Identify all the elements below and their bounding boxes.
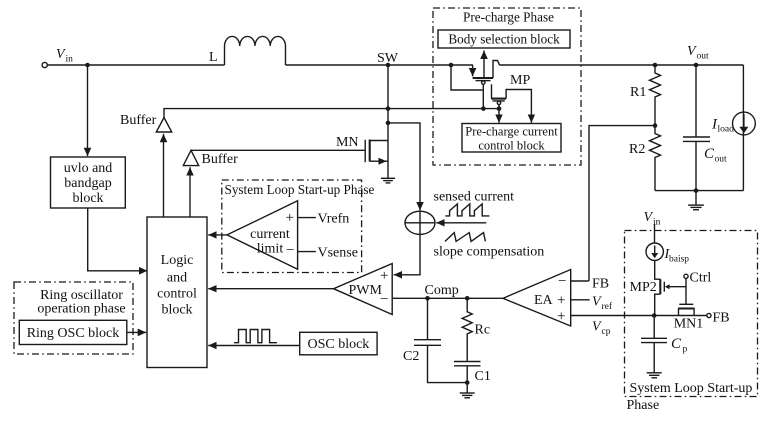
svg-text:FB: FB [592,277,609,292]
svg-text:current: current [250,227,290,242]
wire Vin to inductor [47,64,224,66]
svg-text:C: C [671,336,682,352]
svg-text:R1: R1 [630,85,646,100]
terminal FB (right) [707,311,730,326]
node SW [377,51,399,67]
wire Vin to Ibaisp [654,224,656,243]
node SW sense tap [386,121,391,126]
pre-charge current control block [462,124,561,153]
ground (compensation) [460,383,475,398]
svg-text:cp: cp [602,327,611,337]
svg-text:FB: FB [713,311,730,326]
system loop start-up phase box (right) [625,231,758,414]
input terminal [42,62,47,67]
svg-text:SW: SW [377,51,399,66]
node Comp-C2 [425,296,430,301]
svg-text:+: + [380,268,388,284]
buffer U-buf1 [120,113,172,132]
svg-text:block: block [72,191,103,206]
svg-text:out: out [697,52,710,62]
ring oscillator operation phase box [14,282,133,354]
svg-text:bandgap: bandgap [64,176,111,191]
svg-text:Phase: Phase [627,398,660,413]
wire Vrefn input [298,212,350,227]
inductor L [209,36,286,65]
svg-text:MP: MP [510,73,530,88]
capacitor C1 [454,362,491,385]
svg-text:slope compensation: slope compensation [434,245,545,260]
transistor MP [491,73,531,116]
wire gate drive junction dots [481,106,501,111]
svg-text:C2: C2 [403,349,419,364]
wire sensed current into summer [436,222,486,224]
wire EA Vcp input / startup node [571,316,707,338]
svg-text:load: load [718,125,735,135]
comparator current limit [227,201,298,269]
svg-text:out: out [715,155,728,165]
wire ring osc to logic [127,331,146,333]
svg-text:System Loop Start-up Phase: System Loop Start-up Phase [225,182,375,197]
wire output bottom [655,190,743,192]
current source Ibaisp [646,243,689,265]
svg-text:Vrefn: Vrefn [318,212,350,227]
svg-text:+: + [286,210,294,226]
svg-text:C: C [704,146,715,162]
svg-text:+: + [557,293,565,309]
capacitor Cout [683,65,727,191]
wire Vin down to uvlo [87,65,89,156]
wire FB from divider [589,126,655,281]
svg-text:control: control [157,287,197,302]
svg-text:PWM: PWM [349,283,383,298]
buffer U-buf2 [183,150,238,167]
svg-text:block: block [161,303,192,318]
slope compensation label [434,245,545,260]
svg-text:−: − [380,292,388,308]
wire SW tap down to gate line [451,65,483,90]
transistor body-select PMOS [473,61,500,109]
wire OSC to logic [208,345,300,347]
wire logic to buffer1 [163,134,165,217]
svg-text:L: L [209,50,218,65]
svg-text:V: V [644,210,654,225]
svg-text:Comp: Comp [425,283,459,298]
svg-text:Logic: Logic [161,253,194,268]
node Vout-R1 [653,63,658,68]
wire buffer2 to MN gate [192,149,366,151]
svg-text:Buffer: Buffer [120,113,157,128]
wire arrow MP drain to control block [530,115,532,123]
svg-text:control block: control block [478,139,545,153]
sensed current label [434,190,515,205]
svg-text:Body selection block: Body selection block [448,32,560,47]
svg-text:C1: C1 [475,369,491,384]
wire EA FB input [571,277,609,292]
node FB divider [653,123,658,128]
Vin label (top-left) [56,47,73,65]
svg-text:Pre-charge Phase: Pre-charge Phase [463,10,554,25]
body selection block [438,30,570,48]
svg-text:ref: ref [602,301,613,312]
svg-text:Ctrl: Ctrl [690,271,712,286]
svg-text:baisp: baisp [669,255,689,265]
wire SW vertical [387,65,389,178]
ground (output) [688,191,704,210]
svg-text:−: − [558,274,566,290]
svg-text:Rc: Rc [475,323,491,338]
wire uvlo to logic block [88,208,148,271]
wire Vsense input [298,246,358,261]
node startup [652,313,657,318]
capacitor Cp [641,316,688,373]
node Vout-Cout [694,63,699,68]
svg-text:Ring OSC block: Ring OSC block [27,326,120,341]
capacitor C2 [403,298,467,382]
logic and control block [147,217,207,368]
svg-text:Pre-charge current: Pre-charge current [465,125,558,139]
svg-text:and: and [167,271,187,286]
uvlo and bandgap block [51,157,126,208]
wire arrow into body MOS source [472,65,474,76]
OSC block [300,332,377,355]
node SW-side tap [449,63,454,68]
pre-charge phase box [433,8,581,165]
svg-text:in: in [66,55,74,65]
wire EA Vref input [571,295,613,313]
sensed current waveform [445,204,489,216]
wire current limit output [208,234,227,236]
svg-text:MN1: MN1 [674,317,704,332]
comparator PWM [334,264,393,315]
Vin label (right) [644,210,661,228]
ring OSC block [19,320,127,344]
wire arrow gate to control block [498,109,500,123]
slope compensation waveform [445,233,485,242]
wire Comp node [392,283,503,298]
svg-text:−: − [286,243,294,259]
wire buffer1 output (gate drive) [164,109,499,118]
svg-text:V: V [592,320,602,335]
svg-text:sensed current: sensed current [434,190,515,205]
summing node (adder) [405,211,435,234]
wire logic to buffer2 [189,167,191,217]
svg-text:R2: R2 [629,142,645,157]
transistor MN [336,135,388,165]
svg-text:operation phase: operation phase [37,302,125,317]
resistor R1 [630,65,661,126]
node Comp-Rc [465,296,470,301]
clock waveform [234,330,277,343]
svg-text:V: V [592,295,602,310]
svg-text:p: p [683,345,688,355]
resistor Rc [462,298,490,361]
node gate drive / SW crossing [386,106,391,111]
current source Iload [711,65,755,191]
svg-text:V: V [56,47,66,62]
svg-text:Vsense: Vsense [318,246,358,261]
wire body arrow up [483,51,485,78]
svg-text:MN: MN [336,135,359,150]
resistor R2 [629,126,661,191]
svg-text:Buffer: Buffer [202,152,239,167]
terminal Ctrl [684,271,711,287]
svg-text:V: V [687,44,697,59]
system loop start-up phase box (left) [222,180,375,273]
ground (Cp) [647,373,662,378]
node C1 ground junction [465,380,470,385]
svg-text:EA: EA [534,293,554,308]
svg-text:+: + [557,309,565,325]
transistor MN1 [674,287,704,332]
Vout label [687,44,709,62]
node Vin junction [85,63,90,68]
svg-text:MP2: MP2 [630,280,657,295]
node ground junction [694,188,699,193]
svg-text:System Loop Start-up: System Loop Start-up [630,381,753,396]
svg-text:limit: limit [257,242,284,257]
op-amp EA [503,270,571,327]
svg-text:OSC block: OSC block [307,337,369,352]
wire PWM output to logic [208,288,333,290]
wire sense tap to summer [388,123,420,210]
wire inductor to SW node [286,64,473,66]
wire summer to PWM plus [394,234,420,274]
transistor MP2 [630,260,687,315]
svg-text:uvlo and: uvlo and [64,161,113,176]
ground (MN source) [381,178,395,183]
wire precharge to Vout [499,64,743,66]
